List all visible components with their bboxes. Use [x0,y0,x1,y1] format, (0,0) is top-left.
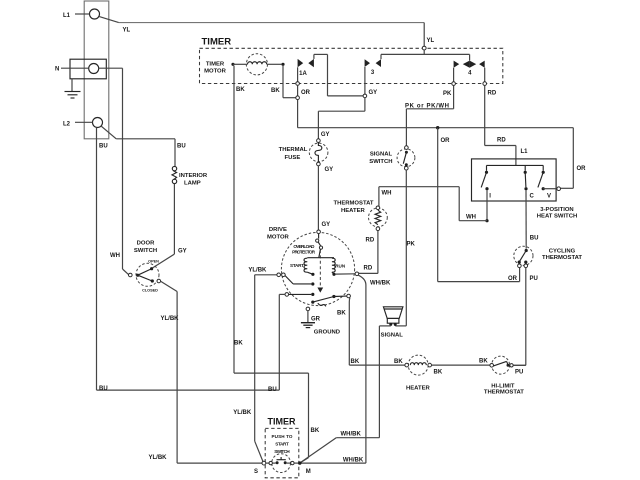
svg-text:YL: YL [427,38,435,44]
motor start contact terminal [277,273,314,286]
wire OR down to cycling thermostat [438,128,520,282]
svg-text:DOOR: DOOR [137,241,155,247]
svg-text:YL/BK: YL/BK [149,455,168,461]
wire BK heater to hi-limit [432,358,490,365]
wire WH from heat switch I to thermostat heater [379,187,489,223]
node YL junction on timer box [422,23,434,55]
svg-text:BK: BK [236,87,245,93]
wire PU cycling thermostat to hi-limit [513,268,538,376]
wire BU from L2 to interior lamp [99,126,186,167]
timer box (bottom, push to start) [265,416,299,478]
svg-text:SIGNAL: SIGNAL [370,152,393,158]
svg-text:GY: GY [321,132,330,138]
motor mechanical link (dashed arrow) [317,250,323,293]
svg-text:GROUND: GROUND [314,330,340,336]
svg-text:OR: OR [508,276,518,282]
svg-text:BU: BU [530,236,539,242]
svg-text:L1: L1 [63,13,71,19]
svg-text:GY: GY [322,222,331,228]
svg-text:SIGNAL: SIGNAL [381,332,404,338]
signal switch [369,146,415,170]
svg-text:TIMER: TIMER [206,62,225,68]
svg-text:DRIVE: DRIVE [269,227,287,233]
wire PK signal switch to signal [395,170,415,326]
svg-text:HEATER: HEATER [341,208,366,214]
push to start switch [254,454,311,475]
node RD junction at motor [355,272,359,276]
svg-text:BU: BU [268,387,277,393]
svg-text:BK: BK [479,358,488,364]
wire OR long run to heat switch V [298,128,587,189]
svg-text:THERMAL: THERMAL [279,147,308,153]
svg-text:V: V [547,194,551,200]
signal (buzzer) [381,307,404,339]
svg-text:TIMER: TIMER [202,37,232,48]
svg-text:OR: OR [301,90,311,96]
svg-text:BK: BK [234,341,243,347]
svg-text:WH/BK: WH/BK [370,281,391,287]
wire PK from contact 4 to signal switch [405,68,455,146]
thermal fuse [279,139,334,173]
svg-text:SWITCH: SWITCH [369,159,392,165]
wire YL/BK motor start to S terminal [233,268,277,462]
svg-text:START: START [290,263,304,268]
svg-text:BK: BK [337,310,346,316]
3-position heat switch [472,159,578,219]
timer contact 1A [298,54,364,96]
motor BU terminal [279,293,314,297]
svg-text:BK: BK [271,88,280,94]
timer contact 3 [363,54,470,97]
svg-text:PK: PK [443,91,452,97]
wire WH/BK motor to M terminal [301,275,391,464]
wire GY contact 3 to thermal fuse [318,98,365,139]
svg-text:OPEN: OPEN [148,260,159,264]
wire YL/BK from door switch to start switch S [149,281,263,463]
svg-text:C: C [530,194,535,200]
svg-text:1A: 1A [299,71,307,77]
svg-text:RUN: RUN [335,263,346,268]
wire YL from L1 to timer [99,16,424,33]
svg-text:WH: WH [110,253,120,259]
svg-text:TIMER: TIMER [268,416,296,426]
timer contact 4 [454,54,485,76]
svg-text:THERMOSTAT: THERMOSTAT [484,390,524,396]
svg-text:BK: BK [434,369,443,375]
wire BK timer motor right to OR node [271,66,296,98]
wire BK motor centrifugal switch to heater [337,298,405,365]
svg-text:BK: BK [311,428,320,434]
wire RD from contact 4 to heat switch [483,68,528,166]
motor ground GR [301,307,340,336]
terminal L2 [63,118,103,128]
svg-text:WH: WH [466,214,476,220]
interior lamp [172,166,208,186]
svg-text:THERMOSTAT: THERMOSTAT [333,200,373,206]
svg-text:GY: GY [178,249,187,255]
svg-text:GR: GR [311,317,321,323]
svg-text:RD: RD [497,137,506,143]
svg-text:BU: BU [177,144,186,150]
wire OR from contact 1A [296,67,311,127]
svg-text:PUSH TO: PUSH TO [272,434,293,439]
svg-text:WH/BK: WH/BK [341,431,362,437]
svg-text:MOTOR: MOTOR [204,69,227,75]
thermostat heater [333,200,387,230]
svg-text:WH: WH [382,191,392,197]
svg-text:N: N [55,67,59,73]
svg-text:YL/BK: YL/BK [161,316,180,322]
svg-text:CYCLING: CYCLING [549,249,576,255]
overload protector [292,234,323,258]
svg-text:WH/BK: WH/BK [343,458,364,464]
svg-text:PK or PK/WH: PK or PK/WH [405,103,449,109]
wire RD thermostat heater to motor run [359,231,378,274]
svg-text:CLOSED: CLOSED [142,289,158,293]
svg-text:BK: BK [394,359,403,365]
svg-text:YL: YL [123,28,131,34]
terminal block strip [84,1,109,139]
svg-text:PU: PU [530,276,538,282]
svg-text:3-POSITION: 3-POSITION [540,207,573,213]
wire BK timer motor left to M [234,66,320,463]
svg-text:M: M [306,469,311,475]
motor start winding [290,258,334,276]
svg-text:OR: OR [577,166,587,172]
heater [405,355,443,391]
node OR junction [436,126,450,144]
terminal N [55,59,106,79]
svg-text:MOTOR: MOTOR [267,235,290,241]
svg-text:S: S [254,469,258,475]
svg-text:RD: RD [488,91,497,97]
wire BU heat switch C to cycling thermostat [526,190,538,248]
svg-text:RD: RD [364,266,373,272]
motor run winding [332,258,355,276]
node M junction [298,461,301,464]
wire lamp to door switch [153,184,187,268]
terminal L1 [63,9,100,19]
cycling thermostat [514,246,583,267]
svg-text:PK: PK [407,242,416,248]
svg-text:INTERIOR: INTERIOR [179,173,208,179]
svg-text:HI-LIMIT: HI-LIMIT [491,384,515,390]
svg-text:YL/BK: YL/BK [233,410,252,416]
svg-text:YL/BK: YL/BK [248,268,267,274]
svg-text:GY: GY [325,167,334,173]
wire WH/BK signal to M terminal [300,325,391,463]
svg-text:FUSE: FUSE [285,155,301,161]
svg-text:BU: BU [99,386,108,392]
wire BU from L2 down to motor [97,127,280,393]
svg-text:HEAT SWITCH: HEAT SWITCH [537,213,577,219]
svg-text:PU: PU [515,369,523,375]
motor centrifugal switch [311,294,350,306]
timer box (top) [200,37,503,84]
wire WH from N to door switch [99,68,123,269]
svg-text:GY: GY [369,90,378,96]
hi-limit thermostat [484,356,526,396]
svg-text:THERMOSTAT: THERMOSTAT [542,255,582,261]
svg-text:START: START [275,441,289,446]
timer motor [204,54,285,75]
svg-text:OVERLOAD: OVERLOAD [293,244,315,249]
svg-text:HEATER: HEATER [406,386,431,392]
svg-text:L2: L2 [63,121,71,127]
svg-text:SWITCH: SWITCH [274,449,290,454]
ground (under N) [65,79,81,98]
wire GY thermal fuse to motor [318,166,330,230]
door switch [123,241,161,293]
svg-text:BK: BK [351,359,360,365]
svg-text:BU: BU [99,144,108,150]
svg-text:OR: OR [441,138,451,144]
svg-text:L1: L1 [521,149,529,155]
svg-text:LAMP: LAMP [184,181,201,187]
drive motor [267,227,355,306]
svg-text:RD: RD [366,237,375,243]
svg-text:SWITCH: SWITCH [134,248,157,254]
svg-text:PROTECTOR: PROTECTOR [292,249,316,254]
